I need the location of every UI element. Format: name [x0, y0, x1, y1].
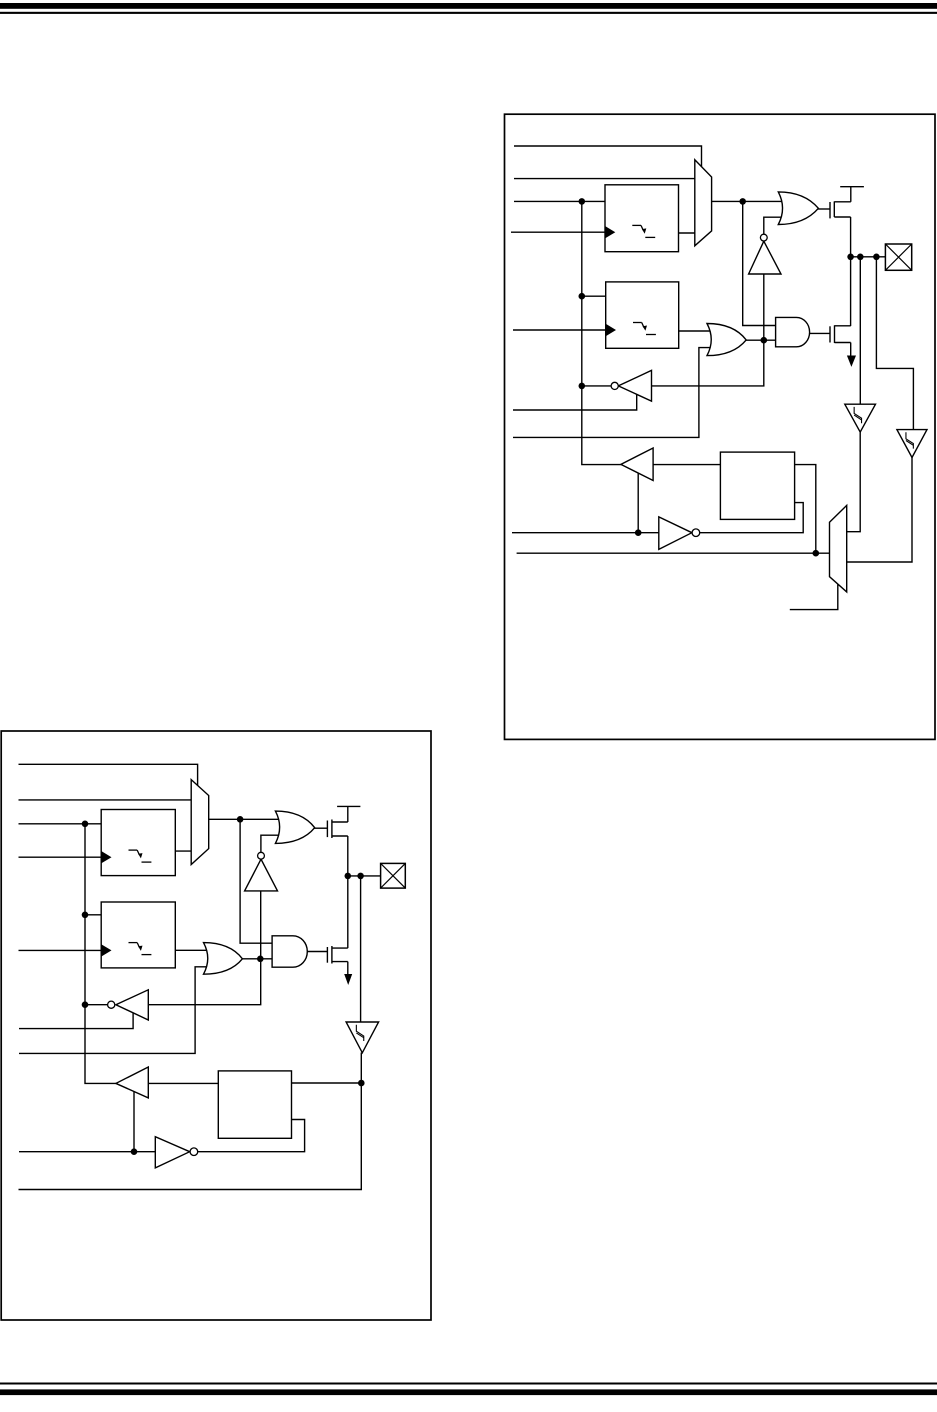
wire: schmitt buffer 1 output to mux (fig1): [847, 432, 861, 532]
wire: read buffer input (fig1): [653, 464, 722, 466]
wire: schmitt buffer 1 input (fig1): [859, 257, 861, 404]
wire: OR2 lower input line (fig2): [19, 967, 212, 1054]
read latch (fig2): [218, 1071, 291, 1138]
figure 2 frame: [1, 731, 431, 1320]
wire: OR2 output to AND (fig2): [242, 958, 273, 960]
wire: data latch clock (fig1): [511, 231, 606, 233]
wire: OR1 lower input stub (fig1): [764, 217, 786, 234]
wire: tri-state buffer output to bus (fig1): [582, 385, 612, 387]
wire: mux output branch to AND (fig2): [240, 819, 273, 943]
node: mux output (fig1): [739, 198, 746, 205]
wire: OR1 output to P gate (fig1): [818, 208, 830, 210]
wire: schmitt buffer 2 input (fig1): [876, 257, 913, 430]
wire: read buffer enable branch (fig1): [637, 473, 639, 533]
port read buffer (fig2): [116, 1067, 148, 1098]
wire: OR1 output to P gate (fig2): [314, 827, 327, 829]
wire: TRIS latch Q to OR2 (fig2): [175, 949, 212, 951]
wire: mux data input (fig2): [19, 799, 193, 801]
wire: schmitt buffer 2 output to mux (fig1): [847, 457, 912, 562]
node: bus to TRIS latch (fig1): [579, 293, 586, 300]
wire: schmitt buffer input (fig2): [360, 876, 362, 1022]
node: bus to TRIS latch (fig2): [82, 912, 89, 919]
schmitt trigger buffer 2 (fig1): [897, 430, 927, 458]
wire: TRIS latch clock (fig1): [513, 329, 607, 331]
page header thick rule: [0, 3, 937, 9]
inverter to OR1 (fig1): [749, 234, 781, 274]
read mux (fig1): [830, 505, 847, 592]
TRIS latch (fig1): [606, 282, 679, 348]
node: pad drain (fig1): [847, 253, 854, 260]
wire: data bus vertical (fig1): [582, 201, 622, 464]
node: pad schmitt (fig2): [357, 873, 364, 880]
output mux (fig2): [191, 780, 209, 865]
wire: N transistor source (fig1): [850, 343, 852, 356]
OR gate U1 (fig1): [778, 192, 818, 225]
wire: data latch clock (fig2): [19, 856, 103, 858]
node: pad drain (fig2): [345, 873, 352, 880]
page header thin rule: [0, 12, 937, 14]
wire: read mux output line (fig1): [517, 552, 830, 554]
wire: data latch Q to mux (fig2): [175, 850, 192, 852]
node: pad schmitt2 (fig1): [873, 253, 880, 260]
wire: OR2 lower input line (fig1): [513, 348, 715, 438]
wire: transistor drain chain (fig2): [347, 836, 349, 948]
wire: pad connection (fig2): [348, 875, 381, 877]
P-channel transistor (fig2): [327, 806, 360, 838]
wire: mux output branch to AND (fig1): [743, 201, 777, 325]
output mux (fig1): [695, 160, 712, 246]
wire: pad read line (fig2): [19, 1053, 362, 1190]
NOT gate (fig1): [659, 517, 700, 550]
AND gate (fig2): [272, 936, 307, 967]
page footer thick rule: [0, 1389, 937, 1395]
page footer thin rule: [0, 1383, 937, 1385]
node: read mux line (fig1): [813, 550, 820, 557]
node: read enable (fig1): [635, 529, 642, 536]
wire: TRIS read enable (fig1): [513, 394, 637, 410]
wire: OR2 output to AND (fig1): [746, 339, 777, 341]
port read buffer (fig1): [621, 448, 653, 481]
schmitt trigger buffer (fig2): [346, 1022, 379, 1053]
node: bus to tri-state out (fig2): [82, 1001, 89, 1008]
wire: tri-state buffer output to bus (fig2): [85, 1004, 108, 1006]
tri-state inverter (fig2): [108, 990, 149, 1020]
NOT gate (fig2): [155, 1137, 197, 1168]
wire: read mux select (fig1): [790, 585, 838, 610]
wire: mux select input (fig1): [514, 146, 702, 167]
VSS arrow (fig2): [344, 974, 352, 985]
wire: data bus to data latch D (fig2): [19, 823, 103, 825]
wire: mux output to OR1 (fig2): [208, 818, 285, 820]
I/O pad (fig1): [885, 244, 911, 270]
wire: tri-state buffer input (fig2): [149, 959, 261, 1005]
wire: latch Q to pad read line (fig2): [291, 1082, 361, 1084]
TRIS latch (fig2): [101, 902, 175, 968]
wire: mux data input (fig1): [514, 178, 696, 180]
node: pad schmitt1 (fig1): [857, 253, 864, 260]
node: OR2 output (fig2): [257, 956, 264, 963]
node: OR2 output (fig1): [761, 337, 768, 344]
inverter to OR1 (fig2): [245, 852, 278, 891]
OR gate U1 (fig2): [275, 811, 314, 843]
data latch (fig2): [101, 810, 175, 876]
I/O pad (fig2): [381, 863, 406, 888]
node: read enable (fig2): [131, 1148, 138, 1155]
wire: mux select input (fig2): [19, 764, 198, 786]
OR gate U2 (fig2): [204, 943, 243, 975]
VSS arrow (fig1): [847, 356, 856, 367]
wire: bus to TRIS latch D (fig2): [85, 914, 102, 916]
P-channel transistor (fig1): [830, 187, 864, 219]
wire: NOT output to latch input (fig1): [700, 503, 803, 533]
wire: AND output to N gate (fig2): [306, 951, 327, 953]
wire: read buffer enable branch (fig2): [133, 1091, 135, 1151]
wire: latch Q to read mux line (fig1): [794, 465, 816, 554]
wire: OR1 lower input stub (fig2): [261, 835, 284, 852]
wire: port read enable line (fig2): [19, 1151, 156, 1153]
N-channel transistor (fig1): [830, 325, 851, 343]
figure 1 frame: [505, 114, 936, 739]
wire: AND output to N gate (fig1): [809, 332, 830, 334]
tri-state inverter (fig1): [611, 370, 651, 401]
wire: data bus to data latch D (fig1): [514, 200, 606, 202]
wire: TRIS latch Q to OR2 (fig1): [678, 330, 715, 332]
schmitt trigger buffer 1 (fig1): [845, 404, 876, 432]
OR gate U2 (fig1): [707, 324, 746, 356]
N-channel transistor (fig2): [327, 946, 347, 964]
node: bus to data latch (fig2): [82, 821, 89, 828]
wire: data latch Q to mux (fig1): [678, 232, 696, 234]
data latch (fig1): [605, 185, 679, 252]
node: bus to data latch (fig1): [579, 198, 586, 205]
wire: TRIS latch clock (fig2): [19, 949, 103, 951]
wire: tri-state buffer input (fig1): [652, 340, 764, 386]
node: mux output (fig2): [237, 816, 244, 823]
wire: inverter input (fig2): [260, 891, 262, 958]
wire: bus to TRIS latch D (fig1): [582, 295, 607, 297]
wire: TRIS read enable (fig2): [19, 1013, 133, 1029]
wire: NOT output to latch input (fig2): [198, 1120, 305, 1152]
node: pad read line (fig2): [358, 1080, 365, 1087]
wire: data bus vertical (fig2): [85, 824, 117, 1084]
wire: mux output to OR1 (fig1): [711, 200, 788, 202]
wire: inverter input (fig1): [763, 275, 765, 341]
node: bus to tri-state out (fig1): [579, 383, 586, 390]
wire: pad connection (fig1): [851, 256, 886, 258]
AND gate (fig1): [776, 317, 810, 346]
read latch (fig1): [720, 452, 794, 519]
wire: N transistor source (fig2): [347, 962, 349, 975]
wire: read buffer input (fig2): [148, 1082, 219, 1084]
wire: transistor drain chain (fig1): [850, 217, 852, 326]
wire: port read enable line (fig1): [512, 532, 660, 534]
